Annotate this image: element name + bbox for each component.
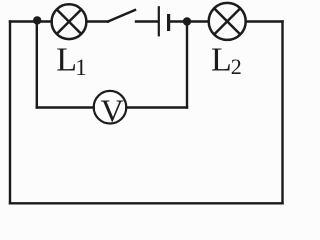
svg-text:L: L	[56, 41, 77, 78]
wire bottom outer	[10, 202, 283, 204]
lamp L1	[52, 4, 87, 39]
battery cell B1 long plate	[158, 6, 160, 36]
wire right riser to node B	[186, 22, 188, 108]
node B junction dot	[183, 17, 191, 25]
wire L1 to switch	[87, 20, 109, 22]
voltmeter V	[94, 91, 127, 129]
svg-text:L: L	[211, 41, 232, 78]
wire node A down	[36, 22, 38, 108]
label L2	[211, 41, 242, 79]
wire L2 to top-right corner	[246, 20, 283, 22]
svg-text:2: 2	[231, 54, 242, 79]
wire top-left segment	[10, 20, 52, 22]
battery cell B1 short plate	[167, 14, 170, 31]
wire node A to voltmeter	[37, 106, 94, 108]
lamp L2	[209, 3, 246, 40]
wire voltmeter to right riser	[126, 106, 187, 108]
wire node B to L2	[191, 20, 209, 22]
wire battery to node B	[170, 20, 188, 22]
label L1	[56, 41, 87, 80]
wire right outer	[281, 22, 283, 204]
svg-text:1: 1	[75, 55, 87, 80]
wire switch to battery	[136, 20, 158, 22]
svg-text:V: V	[101, 93, 124, 129]
wire left outer	[9, 22, 11, 204]
switch S1 blade	[108, 10, 135, 22]
node A junction dot	[33, 16, 41, 24]
